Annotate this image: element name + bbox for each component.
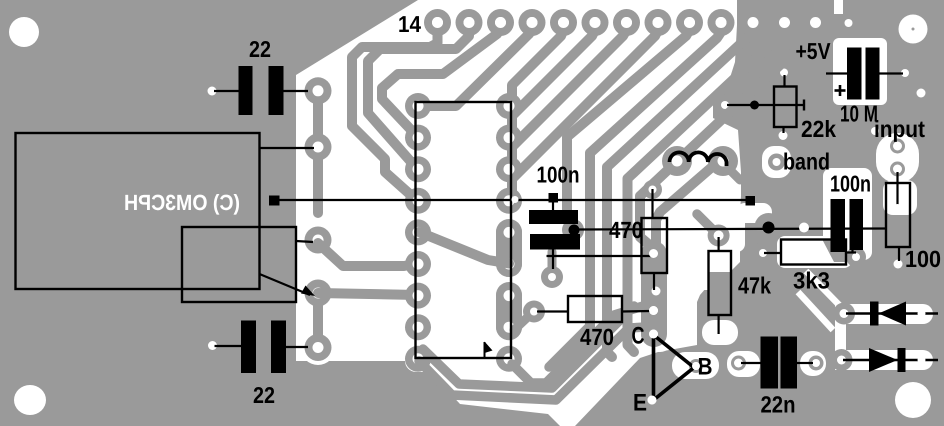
white clearance 47k top zone [700,214,745,252]
white hole cap22 top lead [208,87,217,96]
copper pour right region [575,0,944,426]
pad 22n leads [731,356,824,371]
wire relay arrow to pad3 [260,274,316,296]
label 100n right [830,171,871,197]
net-C end tick [803,100,805,111]
wire pad9 vertical [567,30,690,230]
white holes top pads redraw [432,17,695,28]
wire pad8 to IC pin11 [509,30,658,201]
pad 100n-left bottom [541,252,563,288]
pad B transistor [689,359,703,373]
pad input jack [890,139,905,177]
pad diode2 leads [831,349,926,371]
label input [874,116,925,142]
wire relay pin to pad2 [296,241,313,242]
white clearance pad above transistor [702,320,738,345]
white clearance IC bottom pads [405,350,523,372]
resistor R4 left lead [764,252,781,254]
white hole right small [917,89,926,98]
white gap diagonal above diode2 [798,292,833,330]
label (C) OM3CPH mirrored [124,190,240,215]
IC U1 pin1 marker [485,342,493,358]
pour notch top edge [834,0,843,14]
mounting hole bottom-right [895,382,931,418]
white clearance band pad [762,146,791,178]
svg-text:10 M: 10 M [840,101,878,127]
svg-text:22k: 22k [801,116,837,142]
white hole cap22 bottom lead [208,341,217,350]
label +5V [796,38,832,64]
pad column x318 [305,77,332,361]
IC U1 right pad pills [496,219,522,340]
wire vertical stub band [549,326,590,367]
white clearance transistor C [640,322,673,352]
white hole elko right lead [901,69,909,77]
white strip left of 47k box [700,250,709,290]
resistor R2 left lead [537,310,568,312]
white clearance transistor E [648,396,657,405]
white clearance 22n left lead [727,351,760,377]
label 22n [761,392,796,418]
wire net-A horizontal [278,199,748,201]
diode D1 (points left) [846,302,938,326]
capacitor C3 top lead [552,202,554,210]
wire pad5 to IC pin14 [509,30,564,106]
label E [633,390,647,417]
wire bundle pad4 to IC pin [420,28,532,106]
label B [698,354,713,381]
capacitor C2 leads [215,346,309,347]
capacitor C3 bottom lead [552,249,554,269]
wire IC pad chevron 3 [419,327,646,400]
white gap diagonal above diode1 [806,271,846,312]
resistor R6 top lead [894,172,902,212]
white clearance diode D2 [833,350,933,370]
wire relay pin to pad1 [260,147,315,149]
pad 47k top [697,214,730,247]
svg-text:470: 470 [580,324,614,350]
label 470 lower [580,324,614,350]
white clearance electrolytic cap [833,38,887,105]
label 22k [801,116,837,142]
capacitor C6 stub [851,250,853,253]
wire bundle pad2 to IC pin [368,30,469,169]
resistor R1 top lead [651,189,653,218]
resistor R3 47k outline [709,251,732,315]
node net-A left square [269,196,280,206]
node net-A 100n square [549,193,559,203]
label 100n left [537,162,580,188]
resistor R1 470 outline [642,218,668,273]
white hole below 10M [871,127,879,135]
capacitor C5 plus sign [835,85,846,96]
coil pads [662,146,740,180]
wire bundle pad1 to IC pin [352,30,438,201]
label 10 M [840,101,878,127]
label 3k3 [793,268,830,294]
resistor R3 bottom lead [717,315,719,334]
label 47k [738,273,772,299]
mounting hole top-left [9,17,39,47]
wire relaypad to IC pin7 [318,293,418,295]
wire pad11 vertical [607,30,753,357]
wire relaypad to IC pin6 [318,243,418,266]
white hole line-c left [721,101,729,109]
label 470 upper [609,217,643,243]
svg-text:+5V: +5V [796,38,832,64]
node junction dot 573 [569,225,580,236]
svg-text:3k3: 3k3 [793,268,830,294]
white clearance 100n-right zone [823,168,872,260]
white hole pad11 top [748,17,759,28]
pad under 470 resistor [645,245,663,263]
wire IC pad chevron 1 [512,306,643,383]
diode D2 (points right) [843,348,938,372]
white hole pad13 top [810,17,821,28]
label 100 [905,246,941,272]
pad 3k3 right [846,247,866,267]
white hole 22k top [780,69,788,77]
IC U1 left pads [405,93,431,372]
pad halo 318-347 [301,330,336,365]
capacitor C1 22 top plates [239,66,284,115]
pad junction 573 [562,180,662,241]
top connector pads 1-9 [424,9,703,36]
label 22 top [249,36,271,62]
svg-text:470: 470 [609,217,643,243]
svg-text:100n: 100n [537,162,580,188]
wire bundle pad3 to IC pin [382,28,501,138]
resistor R5 top lead [783,75,785,87]
svg-text:22n: 22n [761,392,796,418]
pad diode1 leads [833,303,926,325]
white pocket below net-A square [736,203,772,223]
relay K1 outline box [16,133,260,289]
wire net-C horizontal [727,104,804,106]
white clearance 100 resistor [883,180,917,215]
resistor R2 470 outline [568,296,622,322]
label 14 [398,11,421,37]
capacitor C3 100n plates [529,210,580,250]
resistor R4 3k3 outline [781,240,846,265]
resistor R5 bottom lead [782,127,784,133]
white clearance diode left link [835,304,846,370]
wire coil to pad column [656,161,723,287]
node junction dot 754 [750,101,759,110]
svg-text:100n: 100n [830,171,871,197]
label 22 bottom [253,382,275,408]
svg-text:47k: 47k [738,273,772,299]
copper pour bottom strip [290,361,560,426]
white clearance 3k3 zone [777,236,852,268]
svg-text:14: 14 [398,11,421,37]
mounting hole bottom-left [14,385,46,415]
transistor Q1 outline [654,335,695,400]
capacitor C2 22 bottom plates [241,321,286,374]
wire IC pad chevron 2 [423,306,634,388]
resistor R6 100 outline [886,183,910,247]
resistor R2 right lead [622,310,651,313]
gray wedge in 3k3 box [822,239,846,262]
svg-text:100: 100 [905,246,941,272]
white hole pad10 top [716,17,727,28]
IC U1 right pads [496,93,522,372]
label band [783,149,830,175]
label C transistor [632,323,645,350]
svg-text:input: input [874,116,925,142]
svg-text:band: band [783,149,830,175]
wire pad7 to IC pin12 [509,30,627,169]
white hole 100 bottom [890,256,906,272]
white clearance input connector [876,133,919,183]
resistor R1 bottom lead [653,273,655,290]
white hole top small [845,19,853,27]
pad column 653 [641,241,667,347]
white clearance 22n right lead [800,351,826,376]
wire net-B horizontal [573,229,886,230]
mounting hole top-right [899,15,928,44]
svg-text:22: 22 [253,382,275,408]
pad band [768,154,785,171]
wire pad10 vertical [590,32,721,330]
resistor R4 right lead [846,251,856,253]
wire pad6 to IC pin13 [509,30,595,138]
resistor R3 top lead [717,237,719,251]
capacitor C4 22n plates [761,337,798,389]
capacitor C1 leads [214,90,308,92]
resistor R5 22k outline [774,87,797,128]
inductor L1 coil [670,152,727,166]
white hole pad12 top [779,17,790,28]
pad dot768 [755,213,783,241]
wire pad13 vertical [640,30,816,255]
svg-text:22: 22 [249,36,271,62]
copper pour left region [0,0,418,426]
white hole 470v bottom pad [645,280,667,302]
pad 3k3 left [752,242,774,264]
wire pad12 vertical [628,30,785,352]
resistor R6 bottom lead [898,247,900,261]
white hole 22k bottom [779,131,788,140]
capacitor C5 leads [826,72,903,74]
svg-text:(C) OM3CPH: (C) OM3CPH [124,190,240,215]
hole touch-ups over black lines [512,196,926,405]
wire IC pin internal diagonal [419,232,509,264]
top connector pad 10 ring [708,9,735,36]
IC U1 outline [416,102,512,358]
pad 470h left [514,301,545,331]
wire net 256 horizontal [547,255,653,257]
svg-text:C: C [632,323,645,350]
capacitor C6 plates [831,199,864,252]
svg-text:E: E [633,390,647,417]
white clearance diode D1 [836,304,933,324]
capacitor C4 leads [741,362,813,364]
node net-A right square [746,196,756,206]
capacitor C5 10M plates [847,48,880,100]
relay K1 inner box [182,227,296,302]
pad 47k bottom [716,331,725,340]
white clearance transistor B [672,352,719,379]
node junction dot 768 [763,222,775,234]
